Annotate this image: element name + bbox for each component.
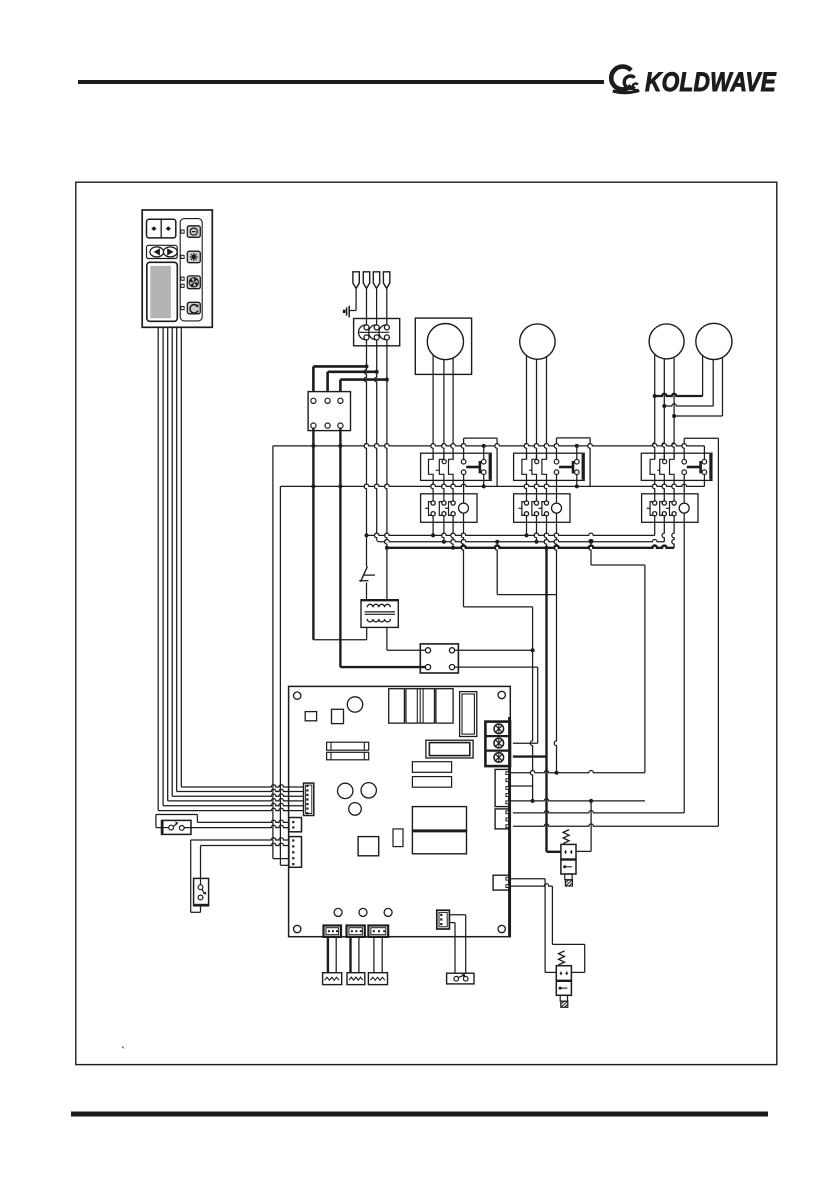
junction K1 aux top	[482, 444, 486, 448]
breaker safety switch symbol	[359, 567, 375, 600]
wire K1 aux verticals	[483, 446, 485, 487]
wire controller cable 1	[158, 327, 304, 810]
condenser fan motor M3	[649, 324, 684, 359]
wire lug2 down	[366, 288, 368, 324]
wire contactor pole to overload	[672, 480, 674, 500]
PCB component circle	[347, 697, 362, 712]
PCB connector CN3 (sensor)	[289, 837, 302, 868]
wire controller cable 2	[163, 327, 304, 805]
overload relay OL2	[514, 494, 570, 523]
wire controller cable 3	[168, 327, 304, 801]
footer rule	[71, 1112, 768, 1117]
junction M4/M3 pole3	[672, 414, 676, 418]
wire M4 pole1 to M3 pole1	[655, 356, 703, 396]
wire contactor pole to overload	[431, 480, 433, 500]
pressure switch PS1	[156, 820, 191, 834]
wire K3 coil circuit via OL3 heater	[513, 475, 684, 813]
contactor K2	[514, 453, 585, 480]
left/right arrow buttons	[147, 245, 178, 258]
Koldwave wave logo icon	[611, 67, 639, 93]
wire K2 aux verticals	[576, 446, 578, 487]
PCB mounting hole bottom-left	[294, 925, 301, 932]
wire contactor pole to overload	[662, 480, 664, 500]
wire controller cable 4	[172, 327, 304, 796]
PCB connector CN1 (display cable)	[304, 783, 314, 815]
wire CN4 pin1 to contactor coils	[509, 542, 645, 773]
junction K2 aux bottom	[575, 484, 579, 488]
wire CN3 pin2 to sensor top	[201, 843, 289, 885]
wire TB pole2 (W2) to bus B	[374, 340, 379, 542]
wire OL1 pole2 to bus B	[442, 516, 446, 544]
wire contactor pole to overload	[534, 480, 536, 500]
heater resistor R2	[347, 973, 365, 985]
relay RY1	[420, 644, 458, 673]
svg-text:KOLDWAVE: KOLDWAVE	[645, 67, 777, 97]
wire lug3 down	[376, 288, 378, 324]
PCB indicator circle 3	[384, 908, 392, 916]
wire controller cable 5	[177, 327, 304, 791]
wire K3 coil loop	[682, 438, 719, 459]
junction bus L2 / CB wires	[311, 484, 342, 488]
terminal lug 1	[353, 272, 359, 289]
stray backquote mark	[121, 1044, 125, 1059]
PCB heater connector 1	[324, 926, 342, 937]
wire CN3 pin1 to sensor bottom	[191, 838, 289, 913]
PCB indicator circle 2	[359, 908, 367, 916]
PCB tall capacitor	[460, 692, 477, 737]
wire bus L1 (top)	[273, 444, 705, 859]
fan LED 2	[181, 284, 184, 287]
wire M2 pole2	[534, 359, 536, 459]
PCB component small square 1	[305, 712, 316, 721]
wire RY1 coil out to PCB screw2	[455, 667, 538, 743]
PCB resistor bar 1	[327, 742, 369, 750]
PCB capacitor circle 1	[338, 783, 353, 798]
PCB component small square 2	[332, 709, 344, 723]
cycle button	[187, 302, 200, 314]
junction bus L1 / CB wires	[311, 444, 342, 448]
wire OL2 pole3 to bus C and solenoid feed (thick)	[544, 516, 548, 852]
wire CN7 to float switch	[449, 915, 465, 973]
wire T1 secondary right to relay	[387, 627, 426, 650]
transformer T1	[361, 600, 398, 628]
junction solenoid1 right feed	[589, 799, 593, 803]
terminal lug 4	[383, 272, 389, 289]
compressor motor M1	[415, 318, 471, 374]
wire contactor pole to overload	[544, 480, 546, 500]
wire M4 pole2 to M3 pole2	[664, 359, 713, 406]
power button	[187, 226, 200, 238]
junction bus B tap K coil feed	[589, 540, 593, 544]
PCB mounting hole top-right	[498, 691, 505, 698]
PCB connector CN4 (outputs)	[495, 769, 509, 806]
PCB connector CN6 (solenoid 2)	[493, 875, 509, 890]
wire M1 pole2	[442, 360, 444, 460]
mode button (snowflake)	[187, 251, 200, 263]
wire CN2 pin1 to pressure switch	[156, 815, 289, 828]
junction W3 bus C	[385, 546, 389, 550]
solenoid valve SV2	[556, 951, 571, 1007]
evaporator fan motor M2	[520, 324, 555, 359]
wire heater2 feed (thick)	[351, 937, 359, 973]
PCB indicator circle 1	[334, 908, 342, 916]
PCB capacitor circle 3	[349, 803, 362, 816]
wire bus C (thick)	[387, 545, 674, 547]
wire M2 pole1	[524, 356, 526, 460]
wire M4 pole3 to M3 pole3	[674, 357, 722, 416]
PCB component mid square	[358, 837, 379, 856]
junction relay aux / K1 coil wire	[531, 648, 535, 652]
contactor K1	[421, 453, 492, 480]
terminal lug 3	[373, 272, 379, 289]
wire CN4 pin5	[509, 799, 645, 801]
wire contactor pole to overload	[451, 480, 453, 500]
PCB connector CN7 (float switch)	[437, 910, 450, 929]
thermostat sensor switch TS1	[194, 878, 209, 905]
PCB screw terminal block	[485, 722, 510, 767]
PCB component small vertical rect	[393, 829, 403, 847]
junction W3 branch	[385, 378, 389, 382]
wire K1 coil loop	[461, 438, 497, 486]
wire OL3 pole2 to bus B	[662, 516, 664, 542]
wire heater3 feed	[374, 937, 382, 973]
overload relay OL1	[421, 494, 477, 523]
wire contactor pole to overload	[442, 480, 444, 500]
wire K3 aux verticals	[703, 446, 705, 487]
terminal lug 2	[363, 272, 369, 289]
wire OL3 pole3 to bus C	[672, 516, 674, 548]
solenoid valve SV1	[561, 830, 576, 886]
wire OL1 pole1 to bus A	[431, 516, 435, 538]
wire K3 coil feed from PCB	[513, 438, 719, 826]
cycle LED	[181, 307, 184, 310]
control PCB board	[289, 686, 511, 936]
wire contactor pole to overload	[652, 480, 654, 500]
PCB connector CN2 (switch)	[289, 818, 302, 832]
wire M3 pole1	[652, 355, 654, 460]
PCB heater connector 3	[368, 926, 388, 937]
PCB relay bank right	[436, 689, 453, 723]
junction M4/M3 pole1	[653, 394, 657, 398]
wire heater1 feed (thick)	[328, 937, 336, 973]
LCD display window	[147, 262, 178, 321]
ground symbol	[343, 306, 349, 318]
fan button	[187, 276, 200, 289]
power LED	[181, 230, 184, 233]
circuit breaker CB1	[308, 392, 350, 431]
wire M3 pole3	[672, 357, 674, 459]
wire bus L2 (second)	[280, 484, 704, 865]
junction W2 branch	[375, 370, 379, 374]
wire RY1 aux out	[455, 649, 533, 651]
float switch FS1	[447, 973, 474, 984]
wire OL2 pole2 to bus B	[534, 516, 538, 544]
junction K2 coil wire to PCB pin1 line	[555, 771, 559, 775]
wire contactor pole to overload	[524, 480, 526, 500]
wire M3 pole2	[662, 359, 664, 460]
remote controller panel body	[142, 210, 212, 327]
wire OL2 pole1 to bus A	[525, 516, 529, 538]
heater resistor R1	[323, 973, 342, 985]
wire bus A	[367, 533, 655, 535]
condenser fan motor M4	[696, 323, 732, 359]
junction W1 branch	[365, 364, 369, 368]
heater resistor R3	[368, 973, 387, 985]
junction K1 coil wire to PCB pin	[531, 799, 535, 803]
wire M1 pole1	[431, 355, 433, 459]
wire CN6 pin2 to solenoid2 right	[509, 884, 585, 973]
svg-text:`: `	[121, 1044, 125, 1059]
wire pressure switch to CN2 pin2	[184, 825, 289, 827]
wire W1 thick branch to breaker pole1	[313, 366, 366, 391]
diagram border frame	[76, 182, 777, 1064]
PCB connector CN5	[495, 809, 509, 829]
PCB component rect 2	[412, 777, 451, 788]
wire OL1 pole3 to bus C	[451, 516, 455, 550]
wire solenoid1 left feed	[547, 851, 561, 853]
up/down temperature buttons	[147, 219, 176, 238]
PCB heater connector 2	[347, 926, 365, 937]
wire M2 pole3	[544, 356, 546, 459]
wire CB pole3 to relay coil (thick)	[340, 428, 425, 667]
wire solenoid1 right feed	[576, 801, 591, 852]
fan LED 1	[181, 277, 184, 280]
wire lug4 down	[386, 288, 388, 324]
PCB relay bank left	[389, 689, 405, 723]
junction M4/M3 pole2	[662, 404, 666, 408]
junction K2 aux top	[575, 444, 579, 448]
wire CN6 pin1 to solenoid2 left	[509, 879, 557, 973]
wire W3 thick branch to breaker pole3	[340, 380, 387, 392]
wire W2 thick branch to breaker pole2	[328, 372, 377, 392]
wire K1 coil circuit via OL1 heater	[461, 475, 532, 801]
wire K2 coil loop	[554, 438, 590, 487]
contactor K3	[641, 453, 712, 480]
wire M1 pole3	[451, 358, 453, 459]
wire lug1 to ground	[350, 288, 357, 310]
junction K1 aux bottom	[482, 484, 486, 488]
wire bus B	[379, 540, 664, 542]
wire K2 coil circuit via OL2 heater	[554, 475, 556, 773]
PCB relay bank middle	[406, 689, 435, 723]
wire OL3 pole1 to bus A	[654, 516, 656, 536]
mode LED	[181, 255, 184, 258]
Koldwave logo text	[645, 67, 777, 97]
PCB component double bar	[426, 740, 473, 758]
PCB transformer block	[412, 807, 466, 854]
header rule	[78, 80, 604, 84]
PCB resistor bar 2	[327, 752, 369, 760]
terminal block TB1	[354, 319, 400, 346]
PCB mounting hole bottom-right	[498, 925, 505, 932]
wire CN4 pin3	[509, 785, 533, 787]
overload relay OL3	[642, 494, 698, 523]
wire bus B tap to K2 coil	[495, 540, 557, 595]
right button column	[180, 219, 202, 321]
junction W1 bus A	[365, 533, 369, 537]
wire TB pole1 to switch and transformer (W1)	[364, 340, 366, 567]
PCB component rect 1	[412, 762, 451, 773]
wire CB pole1 to transformer secondary	[313, 428, 366, 640]
wire solenoid feed tap to PCB screw3 (thick)	[513, 755, 547, 757]
wire T1 secondary left	[366, 627, 368, 639]
PCB capacitor circle 2	[361, 783, 376, 798]
wire TB pole3 (W3) to transformer	[385, 340, 387, 599]
PCB mounting hole top-left	[294, 692, 301, 699]
wire controller cable 6	[181, 327, 304, 787]
